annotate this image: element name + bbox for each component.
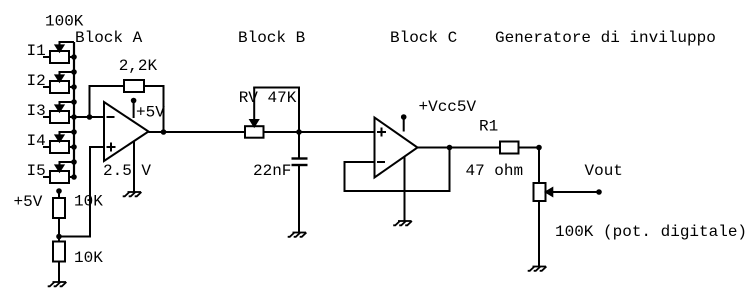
svg-text:R1: R1 xyxy=(479,118,498,136)
svg-text:I1: I1 xyxy=(27,42,46,60)
wire node B to op-amp C xyxy=(299,131,375,133)
junction output A xyxy=(161,129,167,135)
junction node out xyxy=(536,145,542,151)
junction output C xyxy=(447,145,453,151)
ground pin op-amp A xyxy=(133,142,135,193)
resistor 10K upper xyxy=(53,198,65,218)
svg-text:I2: I2 xyxy=(27,72,46,90)
junction feedback tap xyxy=(87,114,93,120)
node Vout terminal xyxy=(596,189,602,195)
wire R1 to node out xyxy=(519,147,540,149)
wire bus to op-amp A inverting input xyxy=(74,116,104,118)
svg-text:+Vcc5V: +Vcc5V xyxy=(419,98,477,116)
ground op-amp C xyxy=(393,221,412,225)
wire divider middle xyxy=(58,218,60,242)
wire feedback to output xyxy=(144,86,164,132)
svg-text:I4: I4 xyxy=(27,132,46,150)
wire down to output pot xyxy=(538,148,540,184)
svg-text:I3: I3 xyxy=(27,102,46,120)
capacitor 22nF xyxy=(292,132,308,232)
wire feedback up xyxy=(90,86,125,117)
potentiometer I1 xyxy=(43,42,74,63)
ground output pot xyxy=(528,267,547,271)
junction node B xyxy=(296,129,302,135)
ground op-amp A xyxy=(123,192,142,196)
svg-text:47 ohm: 47 ohm xyxy=(466,162,524,180)
potentiometer I2 xyxy=(43,72,74,93)
svg-text:22nF: 22nF xyxy=(253,162,291,180)
junction dots on bus xyxy=(71,54,77,180)
potentiometer I3 xyxy=(43,102,74,123)
svg-text:Block B: Block B xyxy=(238,29,305,47)
svg-text:RV 47K: RV 47K xyxy=(239,89,297,107)
potentiometer 100K digital xyxy=(534,183,553,201)
svg-text:2,2K: 2,2K xyxy=(119,57,158,75)
svg-text:2.5 V: 2.5 V xyxy=(103,162,151,180)
ground left divider xyxy=(48,282,67,286)
wire pot to ground xyxy=(538,201,540,267)
wire to ground left xyxy=(58,262,60,283)
svg-text:+5V: +5V xyxy=(14,193,43,211)
op-amp U1 (Block A) xyxy=(104,102,149,161)
potentiometer I5 xyxy=(43,162,74,183)
wire op-amp A output to RV xyxy=(149,131,246,133)
node +5V left xyxy=(56,188,62,198)
ground capacitor xyxy=(288,233,307,237)
potentiometer I4 xyxy=(43,132,74,153)
svg-text:+5V: +5V xyxy=(136,104,165,122)
resistor 10K lower xyxy=(53,242,65,262)
wire divider to op-amp A non-inverting input xyxy=(59,147,104,237)
wire RV right lead xyxy=(264,131,300,133)
junction divider xyxy=(56,234,62,240)
wire summing bus xyxy=(73,42,75,177)
potentiometer RV 47K xyxy=(245,88,264,138)
svg-text:Block C: Block C xyxy=(390,29,457,47)
svg-text:10K: 10K xyxy=(74,193,103,211)
svg-text:100K (pot. digitale): 100K (pot. digitale) xyxy=(555,223,747,241)
op-amp U2 (Block C) xyxy=(375,118,418,178)
wire wiper to Vout xyxy=(551,191,599,193)
wire op-amp C output xyxy=(418,147,501,149)
svg-text:I5: I5 xyxy=(27,162,46,180)
wire feedback op-amp C xyxy=(345,148,450,192)
ground pin op-amp C xyxy=(404,157,406,222)
svg-text:Vout: Vout xyxy=(585,162,623,180)
svg-text:Generatore di inviluppo: Generatore di inviluppo xyxy=(495,29,716,47)
wire RV wiper loop xyxy=(253,88,299,133)
resistor 2,2K feedback xyxy=(124,80,144,92)
svg-text:Block A: Block A xyxy=(75,29,143,47)
svg-text:10K: 10K xyxy=(74,249,103,267)
svg-text:100K: 100K xyxy=(45,13,84,31)
power pin +5V op-amp A xyxy=(131,98,137,118)
resistor R1 xyxy=(500,142,519,154)
power pin +Vcc5V op-amp C xyxy=(401,114,407,131)
